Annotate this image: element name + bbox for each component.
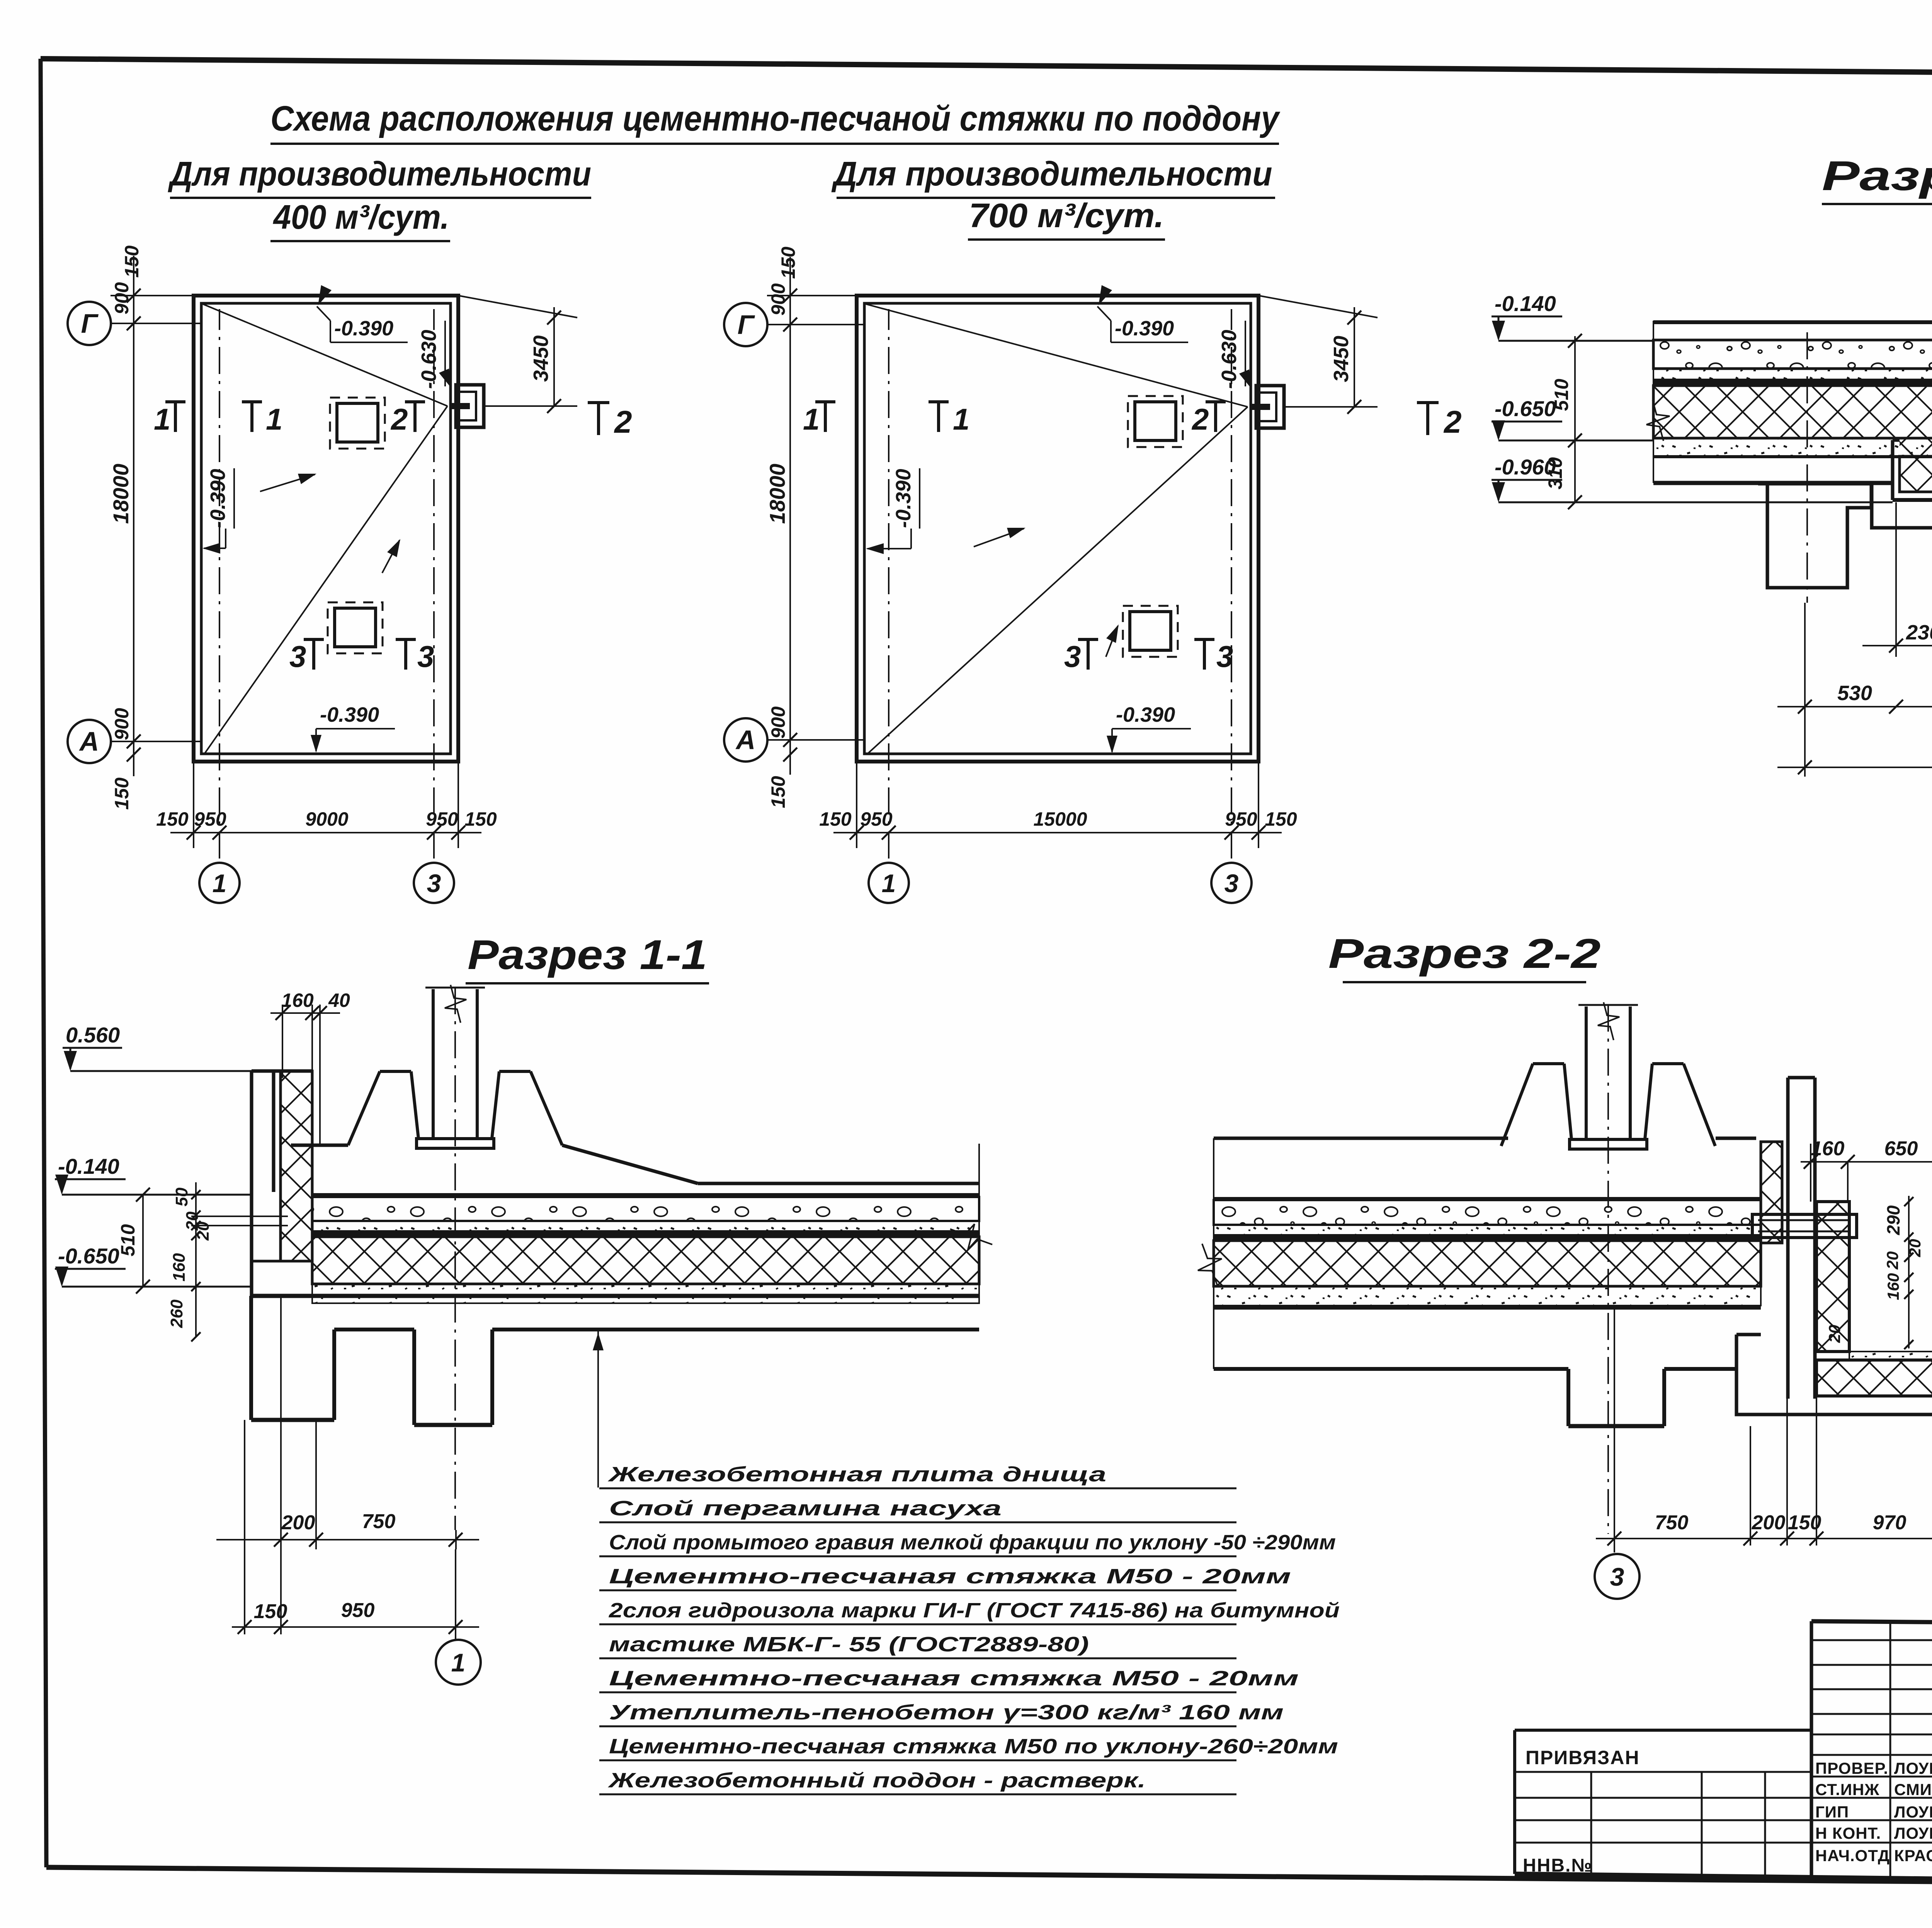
svg-text:950: 950 <box>1225 808 1257 830</box>
svg-text:9000: 9000 <box>305 808 348 830</box>
svg-text:Разрез 2-2: Разрез 2-2 <box>1328 930 1601 977</box>
svg-text:150: 150 <box>156 808 189 830</box>
svg-text:2: 2 <box>614 405 632 440</box>
svg-text:750: 750 <box>362 1510 396 1533</box>
svg-text:18000: 18000 <box>109 464 133 524</box>
svg-text:-0.390: -0.390 <box>1116 703 1175 726</box>
svg-text:НАЧ.ОТД: НАЧ.ОТД <box>1815 1846 1890 1865</box>
svg-text:КРАСАВНН: КРАСАВНН <box>1894 1846 1932 1865</box>
svg-text:900: 900 <box>111 708 133 740</box>
svg-text:160: 160 <box>281 990 314 1011</box>
svg-text:-0.630: -0.630 <box>417 330 440 389</box>
svg-text:160: 160 <box>170 1253 189 1282</box>
svg-text:150: 150 <box>1788 1511 1821 1534</box>
svg-text:40: 40 <box>328 990 350 1011</box>
svg-text:-0.650: -0.650 <box>1495 396 1556 421</box>
svg-text:1: 1 <box>803 402 820 436</box>
svg-text:Н КОНТ.: Н КОНТ. <box>1815 1824 1881 1842</box>
svg-text:200: 200 <box>1752 1511 1786 1534</box>
svg-text:Разрез 3-3: Разрез 3-3 <box>1822 152 1932 199</box>
svg-text:Разрез 1-1: Разрез 1-1 <box>468 931 707 978</box>
svg-text:-0.390: -0.390 <box>892 469 915 528</box>
svg-text:А: А <box>735 725 756 755</box>
svg-text:15000: 15000 <box>1033 808 1087 830</box>
svg-text:700 м³/сут.: 700 м³/сут. <box>969 196 1164 235</box>
svg-text:СМИРНОВА: СМИРНОВА <box>1894 1780 1932 1799</box>
svg-text:230: 230 <box>1906 621 1932 644</box>
svg-text:Схема расположения цементно-: Схема расположения цементно-песчаной стя… <box>270 99 1280 138</box>
svg-text:-0.390: -0.390 <box>1115 317 1174 340</box>
svg-text:А: А <box>79 726 99 757</box>
svg-text:Цементно-песчаная стяжка М50: Цементно-песчаная стяжка М50 - 20мм <box>609 1565 1291 1588</box>
svg-text:150: 150 <box>777 247 799 279</box>
svg-text:150: 150 <box>254 1600 287 1623</box>
svg-text:950: 950 <box>194 808 226 830</box>
svg-text:150: 150 <box>819 808 852 830</box>
svg-text:3: 3 <box>289 639 306 673</box>
svg-text:2: 2 <box>390 402 408 436</box>
svg-text:1: 1 <box>213 869 227 898</box>
svg-text:Слой промытого гравия мелкой: Слой промытого гравия мелкой фракции по … <box>609 1531 1336 1554</box>
svg-text:ЛОУЦКЕР: ЛОУЦКЕР <box>1894 1759 1932 1777</box>
svg-text:20: 20 <box>194 1221 213 1241</box>
svg-text:Г: Г <box>81 308 99 338</box>
svg-text:750: 750 <box>1655 1511 1689 1534</box>
svg-text:-0.390: -0.390 <box>320 703 379 726</box>
svg-text:950: 950 <box>860 808 893 830</box>
svg-text:950: 950 <box>426 808 458 830</box>
svg-text:150: 150 <box>111 777 133 810</box>
svg-text:2: 2 <box>1191 402 1209 436</box>
svg-text:Железобетонная плита днища: Железобетонная плита днища <box>607 1463 1106 1486</box>
svg-text:3: 3 <box>1216 639 1233 673</box>
svg-text:Слой пергамина насуха: Слой пергамина насуха <box>609 1497 1002 1520</box>
svg-text:ПРИВЯЗАН: ПРИВЯЗАН <box>1526 1747 1640 1768</box>
svg-text:Утеплитель-пенобетон γ=300 кг: Утеплитель-пенобетон γ=300 кг/м³ 160 мм <box>609 1701 1284 1724</box>
svg-text:-0.630: -0.630 <box>1218 330 1241 389</box>
svg-text:20: 20 <box>1906 1239 1924 1258</box>
svg-text:50: 50 <box>172 1187 191 1206</box>
svg-text:2слоя гидроизола марки ГИ-Г: 2слоя гидроизола марки ГИ-Г (ГОСТ 7415-8… <box>609 1599 1340 1622</box>
svg-text:20: 20 <box>1825 1325 1844 1343</box>
svg-text:260: 260 <box>167 1299 186 1328</box>
svg-text:160: 160 <box>1884 1273 1902 1300</box>
svg-text:1: 1 <box>882 869 896 898</box>
svg-text:мастике МБК-Г- 55 (ГОСТ2889-: мастике МБК-Г- 55 (ГОСТ2889-80) <box>609 1633 1089 1656</box>
svg-text:1: 1 <box>154 402 170 436</box>
svg-text:310: 310 <box>1544 457 1566 490</box>
svg-text:3: 3 <box>1064 639 1081 673</box>
svg-text:Железобетонный поддон - раств: Железобетонный поддон - растверк. <box>607 1769 1146 1792</box>
svg-text:-0.140: -0.140 <box>1495 291 1556 316</box>
svg-text:150: 150 <box>121 245 143 278</box>
svg-text:530: 530 <box>1837 682 1872 705</box>
svg-text:ННВ.№: ННВ.№ <box>1523 1855 1593 1876</box>
svg-text:ГИП: ГИП <box>1815 1803 1849 1821</box>
svg-text:ЛОУЦКЕР: ЛОУЦКЕР <box>1894 1824 1932 1842</box>
svg-text:400 м³/сут.: 400 м³/сут. <box>273 198 449 236</box>
svg-text:200: 200 <box>281 1511 315 1534</box>
svg-text:3450: 3450 <box>1330 336 1353 382</box>
svg-text:-0.650: -0.650 <box>58 1244 119 1268</box>
svg-text:Для производительности: Для производительности <box>831 155 1272 193</box>
svg-text:3: 3 <box>427 869 441 898</box>
svg-text:160: 160 <box>1811 1137 1845 1160</box>
svg-text:1: 1 <box>266 402 282 436</box>
svg-text:150: 150 <box>767 776 789 808</box>
svg-text:1: 1 <box>451 1648 466 1677</box>
svg-text:Цементно-песчаная стяжка М50: Цементно-песчаная стяжка М50 по уклону-2… <box>609 1735 1338 1758</box>
svg-text:900: 900 <box>767 283 789 316</box>
svg-text:900: 900 <box>111 282 133 315</box>
svg-text:20: 20 <box>1883 1251 1901 1270</box>
svg-text:1: 1 <box>953 402 969 436</box>
svg-text:18000: 18000 <box>765 464 789 524</box>
svg-text:3450: 3450 <box>529 335 553 382</box>
svg-text:970: 970 <box>1873 1511 1906 1534</box>
svg-text:510: 510 <box>1551 379 1572 411</box>
svg-text:650: 650 <box>1884 1137 1918 1160</box>
svg-text:2: 2 <box>1443 405 1462 440</box>
svg-text:3: 3 <box>417 639 434 673</box>
svg-text:510: 510 <box>117 1224 139 1256</box>
svg-text:290: 290 <box>1883 1205 1903 1235</box>
svg-text:0.560: 0.560 <box>66 1023 120 1047</box>
svg-text:3: 3 <box>1610 1562 1624 1591</box>
svg-text:150: 150 <box>464 808 497 830</box>
svg-text:950: 950 <box>341 1599 375 1622</box>
svg-text:900: 900 <box>767 706 789 739</box>
svg-text:Цементно-песчаная стяжка М50: Цементно-песчаная стяжка М50 - 20мм <box>609 1667 1299 1690</box>
svg-text:Для производительности: Для производительности <box>168 155 591 193</box>
svg-text:СТ.ИНЖ: СТ.ИНЖ <box>1815 1780 1879 1799</box>
svg-text:-0.390: -0.390 <box>206 469 230 528</box>
svg-text:ЛОУЦКЕР: ЛОУЦКЕР <box>1894 1803 1932 1821</box>
svg-text:Г: Г <box>738 309 755 340</box>
svg-text:-0.390: -0.390 <box>334 317 393 340</box>
svg-text:3: 3 <box>1225 869 1239 898</box>
svg-text:ПРОВЕР.: ПРОВЕР. <box>1815 1759 1888 1777</box>
svg-text:150: 150 <box>1265 808 1297 830</box>
